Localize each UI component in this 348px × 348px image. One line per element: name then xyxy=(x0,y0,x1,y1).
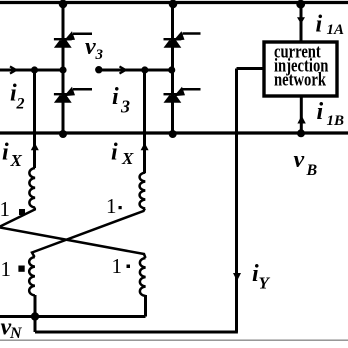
wire right lower coil bottom xyxy=(144,295,147,317)
inductor L upper-left winding xyxy=(29,168,35,208)
wire right thyristor leg xyxy=(171,3,174,135)
node dot: phase-3 / right winding xyxy=(141,66,148,73)
node dot: v3 terminal xyxy=(95,66,102,73)
node dot: negative bus / injection lead xyxy=(297,129,305,137)
svg-text:i: i xyxy=(111,140,118,166)
wire neutral return vertical xyxy=(235,69,238,333)
wire right winding drop xyxy=(143,70,146,173)
svg-text:1B: 1B xyxy=(327,113,345,129)
arrow i_X left up xyxy=(31,143,39,151)
svg-text:2: 2 xyxy=(16,96,25,113)
arrow i_1B up xyxy=(297,116,305,124)
label i_3 xyxy=(112,84,130,117)
arrow i_Y down xyxy=(233,273,241,281)
svg-text:N: N xyxy=(9,325,23,342)
inductor L lower-left winding xyxy=(29,257,35,295)
svg-text:v: v xyxy=(294,147,305,173)
node dot: phase-3 / right leg midpoint xyxy=(168,66,175,73)
wire diagonal left edge to lower-right winding xyxy=(0,228,146,259)
svg-text:Y: Y xyxy=(259,274,271,293)
svg-text:1: 1 xyxy=(112,254,123,278)
thyristor T3 (right leg, top) xyxy=(164,31,201,48)
arrow i_X right up xyxy=(141,143,149,151)
label i_2 xyxy=(10,81,25,113)
wire left winding drop xyxy=(33,70,36,168)
wire winding common line xyxy=(0,315,146,318)
thyristor T4 (right leg, bottom) xyxy=(164,87,201,103)
inductor L upper-right winding xyxy=(140,173,146,209)
label i_X (left) xyxy=(2,140,23,171)
wire injection network bottom lead xyxy=(300,96,303,133)
label i_1A xyxy=(316,12,345,38)
svg-text:3: 3 xyxy=(120,97,130,117)
wire phase-3 line xyxy=(99,69,173,72)
inductor L lower-right winding xyxy=(140,258,146,296)
node dot: negative bus / left leg xyxy=(59,130,67,138)
wire left thyristor leg xyxy=(62,3,65,135)
svg-text:1A: 1A xyxy=(327,22,345,38)
wire top bus xyxy=(0,1,348,4)
arrow i_1A down xyxy=(297,17,305,24)
label: current injection network xyxy=(274,41,329,90)
svg-text:v: v xyxy=(85,34,96,60)
label i_Y xyxy=(252,261,271,293)
node dot: v_N junction xyxy=(31,312,39,320)
node dot: top bus / injection lead xyxy=(296,0,305,9)
svg-text:i: i xyxy=(112,84,119,110)
svg-text:i: i xyxy=(317,99,324,125)
svg-text:i: i xyxy=(316,12,323,38)
svg-text:i: i xyxy=(2,140,9,166)
polarity dot (upper-right) xyxy=(119,206,122,209)
label i_X (right) xyxy=(111,140,134,168)
svg-text:X: X xyxy=(121,149,134,168)
figure bottom rule xyxy=(0,339,348,341)
thyristor T2 (left leg, bottom) xyxy=(54,87,92,103)
label v_B xyxy=(294,147,318,179)
svg-text:1: 1 xyxy=(0,197,10,221)
node dot: top bus / right leg xyxy=(169,0,178,8)
wire negative bus xyxy=(0,131,348,134)
node dot: phase-2 / left winding xyxy=(31,66,38,73)
wire v_N bottom line xyxy=(35,331,238,334)
node dot: top bus / left leg xyxy=(59,0,68,8)
label v_N xyxy=(1,315,24,342)
wire diagonal from upper-left winding to left edge xyxy=(0,208,35,227)
label i_1B xyxy=(317,99,345,129)
svg-text:network: network xyxy=(274,69,326,90)
thyristor T1 (left leg, top) xyxy=(54,31,92,48)
current injection network box U1 xyxy=(264,42,337,96)
node dot: negative bus / right leg xyxy=(169,130,177,138)
wire left lower coil to v_N line xyxy=(34,295,37,332)
wire phase-2 input line xyxy=(0,69,63,72)
wire injection network top lead xyxy=(300,3,303,43)
polarity dot (lower-right) xyxy=(127,265,131,269)
svg-text:1: 1 xyxy=(106,194,117,218)
arrow i_3 chevron xyxy=(120,66,126,73)
label v_3 xyxy=(85,34,104,63)
polarity square (upper-left) xyxy=(19,209,25,215)
arrow i_2 chevron xyxy=(10,66,16,73)
node dot: phase-2 / left leg midpoint xyxy=(59,66,66,73)
svg-text:B: B xyxy=(306,162,318,179)
svg-text:1: 1 xyxy=(1,257,12,281)
polarity square (lower-left) xyxy=(18,266,24,272)
wire diagonal upper-right winding to lower-left winding xyxy=(32,209,145,258)
svg-text:3: 3 xyxy=(95,47,104,63)
wire injection network left stub xyxy=(237,67,265,70)
svg-text:X: X xyxy=(10,151,23,170)
